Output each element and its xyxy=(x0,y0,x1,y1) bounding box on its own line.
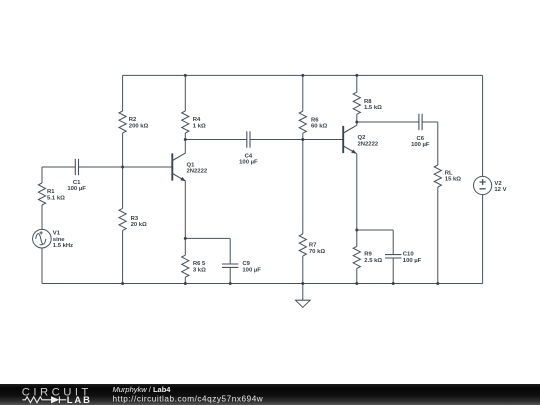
svg-text:R770 kΩ: R770 kΩ xyxy=(309,243,325,255)
wire C9 bottom lead xyxy=(229,267,231,283)
wire R3 bottom to rail xyxy=(122,230,124,283)
svg-text:R6 53 kΩ: R6 53 kΩ xyxy=(193,261,206,273)
resistor R9 xyxy=(353,246,360,268)
junction bottom rail / R6-5 xyxy=(184,282,187,285)
wire R8 top xyxy=(356,75,358,92)
wire Q1 emitter down xyxy=(184,181,186,238)
wire R9 bottom xyxy=(356,268,358,283)
svg-text:R660 kΩ: R660 kΩ xyxy=(311,117,327,129)
svg-text:R81.5 kΩ: R81.5 kΩ xyxy=(364,99,382,111)
resistor R8 xyxy=(353,92,360,114)
resistor R4 xyxy=(182,111,189,133)
CircuitLab logo schematic wire with resistor xyxy=(22,396,66,403)
ground xyxy=(296,300,311,307)
svg-text:R15.1 kΩ: R15.1 kΩ xyxy=(47,189,65,201)
transistor Q2 xyxy=(343,125,357,153)
wire R3 top xyxy=(122,167,124,208)
wire R4 bottom to collector node xyxy=(184,133,186,140)
wire bottom rail (ground net) xyxy=(42,283,483,285)
resistor R1 xyxy=(38,183,45,205)
svg-text:Murphykw / Lab4: Murphykw / Lab4 xyxy=(113,384,172,393)
resistor R6-5 (emitter) xyxy=(182,255,189,277)
wire V2 negative lead xyxy=(482,194,484,283)
capacitor C6 xyxy=(419,114,422,130)
junction Q1 base node xyxy=(121,166,124,169)
wire R1 to V1 xyxy=(41,205,43,230)
svg-text:C10100 µF: C10100 µF xyxy=(403,252,422,264)
capacitor C10 xyxy=(385,255,401,258)
wire R6 bottom to base node xyxy=(302,133,304,139)
capacitor C1 xyxy=(75,159,78,175)
wire collector node to Q2 xyxy=(356,122,358,125)
junction Q1 collector node xyxy=(184,138,187,141)
wire R6-5 bottom xyxy=(184,277,186,283)
wire Q2 emitter down xyxy=(356,154,358,230)
wire RL top xyxy=(437,122,439,165)
svg-text:V1sine1.5 kHz: V1sine1.5 kHz xyxy=(53,231,73,249)
wire V1 to bottom rail xyxy=(41,248,43,284)
svg-text:LAB: LAB xyxy=(67,394,92,405)
junction bottom rail / C10 xyxy=(392,282,395,285)
svg-text:R41 kΩ: R41 kΩ xyxy=(193,117,206,129)
junction Q1 emitter node xyxy=(184,237,187,240)
junction top rail / R4 xyxy=(184,74,187,77)
wire top rail (V+) xyxy=(123,74,483,76)
junction bottom rail / ground xyxy=(301,282,304,285)
wire C6 to RL corner xyxy=(422,121,438,123)
junction top rail / R8 xyxy=(355,74,358,77)
transistor Q1 xyxy=(172,153,186,181)
svg-text:C9100 µF: C9100 µF xyxy=(242,261,261,273)
svg-text:R92.5 kΩ: R92.5 kΩ xyxy=(364,252,382,264)
wire R6 top xyxy=(302,75,304,111)
wire R2 bottom to base node xyxy=(122,133,124,167)
svg-text:C1100 µF: C1100 µF xyxy=(67,180,86,192)
wire C1 to base node xyxy=(79,166,123,168)
resistor RL xyxy=(434,165,441,187)
resistor R7 xyxy=(299,234,306,256)
voltage source V1 (sine) xyxy=(33,229,52,248)
junction bottom rail / R9 xyxy=(355,282,358,285)
wire R9 top xyxy=(356,230,358,246)
wire Q1 base xyxy=(123,166,173,168)
wire input top segment xyxy=(41,167,43,183)
resistor R2 xyxy=(119,111,126,133)
svg-text:C6100 µF: C6100 µF xyxy=(411,136,430,148)
wire collector node to C6 xyxy=(357,121,419,123)
junction top rail / R6 xyxy=(301,74,304,77)
wire V2 positive lead xyxy=(482,75,484,176)
wire RL bottom to rail xyxy=(437,187,439,284)
svg-text:Q22N2222: Q22N2222 xyxy=(358,135,379,147)
capacitor C9 xyxy=(222,264,238,267)
junction bottom rail / RL xyxy=(436,282,439,285)
wire ground stub xyxy=(302,284,304,301)
CircuitLab logo diode xyxy=(51,396,59,403)
voltage source V2 (12 V battery) xyxy=(474,176,492,194)
svg-text:Q12N2222: Q12N2222 xyxy=(187,162,208,174)
junction bottom rail / C9 xyxy=(229,282,232,285)
wire C4 to stage2 base node xyxy=(250,139,303,141)
svg-text:C4100 µF: C4100 µF xyxy=(239,154,258,166)
svg-text:R2200 kΩ: R2200 kΩ xyxy=(129,117,149,129)
svg-text:http://circuitlab.com/c4qzy57n: http://circuitlab.com/c4qzy57nx694w xyxy=(113,394,264,403)
wire input to C1 xyxy=(42,166,75,168)
junction stage2 base node xyxy=(301,138,304,141)
resistor R6 xyxy=(299,111,306,133)
wire R6-5 top xyxy=(184,238,186,255)
junction Q2 emitter node xyxy=(355,229,358,232)
wire collector node to C4 xyxy=(185,139,247,141)
wire R4 top xyxy=(184,75,186,111)
wire C10 bottom lead xyxy=(392,258,394,284)
junction Q2 collector node xyxy=(355,121,358,124)
wire Q2 base xyxy=(303,139,343,141)
svg-text:R320 kΩ: R320 kΩ xyxy=(131,216,147,228)
svg-text:RL15 kΩ: RL15 kΩ xyxy=(445,171,461,183)
resistor R3 xyxy=(119,208,126,230)
wire C10 top lead xyxy=(392,230,394,255)
wire R2 top xyxy=(122,75,124,111)
capacitor C4 xyxy=(247,131,250,147)
wire R7 top xyxy=(302,140,304,235)
junction bottom rail / R3 xyxy=(121,282,124,285)
wire R8 bottom to collector node xyxy=(356,114,358,122)
wire Q2 emitter node to C10 xyxy=(357,229,393,231)
svg-text:V212 V: V212 V xyxy=(494,181,506,193)
wire R7 bottom to rail xyxy=(302,256,304,284)
wire collector node to Q1 xyxy=(184,140,186,153)
wire Q1 emitter node to C9 xyxy=(185,237,230,239)
wire C9 top lead xyxy=(229,238,231,264)
